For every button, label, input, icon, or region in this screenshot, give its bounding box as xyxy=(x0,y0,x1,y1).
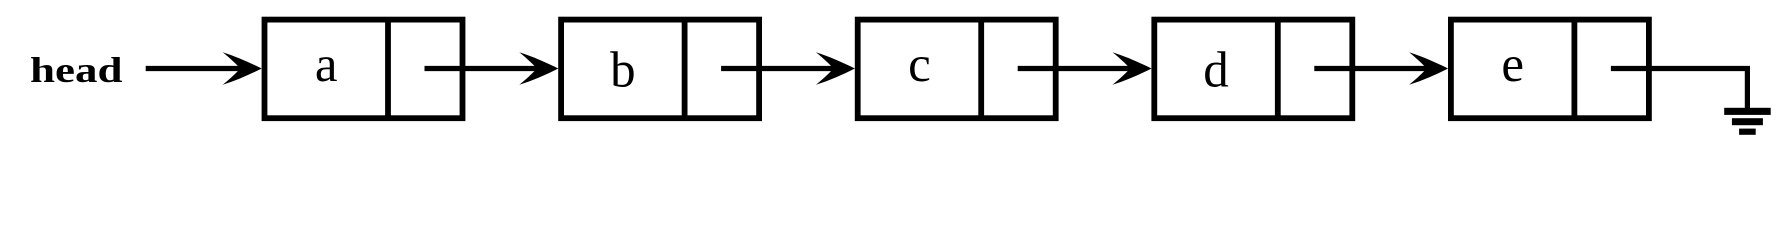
svg-text:d: d xyxy=(1203,43,1229,99)
wire head arrow shaft xyxy=(146,66,250,71)
divider b xyxy=(682,20,688,119)
head arrowhead xyxy=(223,52,262,85)
svg-text:c: c xyxy=(908,37,931,93)
node box a xyxy=(265,20,463,119)
c.next arrowhead xyxy=(1113,52,1152,85)
svg-text:a: a xyxy=(315,37,338,93)
ground null symbol bar 1 xyxy=(1724,108,1771,115)
node box d xyxy=(1154,20,1352,119)
svg-text:e: e xyxy=(1501,37,1524,93)
d.next arrowhead xyxy=(1409,52,1448,85)
divider c xyxy=(978,20,984,119)
svg-text:head: head xyxy=(30,50,123,90)
wire c.next arrow shaft xyxy=(1018,66,1139,71)
divider e xyxy=(1572,20,1578,119)
wire b.next arrow shaft xyxy=(721,66,843,71)
wire e.next to null xyxy=(1611,69,1748,111)
node box b xyxy=(561,20,759,119)
wire a.next arrow shaft xyxy=(425,66,547,71)
ground null symbol bar 2 xyxy=(1732,118,1763,125)
a.next arrowhead xyxy=(519,52,558,85)
node box c xyxy=(858,20,1056,119)
b.next arrowhead xyxy=(816,52,855,85)
wire d.next arrow shaft xyxy=(1314,66,1436,71)
divider d xyxy=(1275,20,1281,119)
divider a xyxy=(385,20,391,119)
svg-text:b: b xyxy=(610,43,636,99)
node box e xyxy=(1451,20,1649,119)
ground null symbol bar 3 xyxy=(1739,129,1756,135)
